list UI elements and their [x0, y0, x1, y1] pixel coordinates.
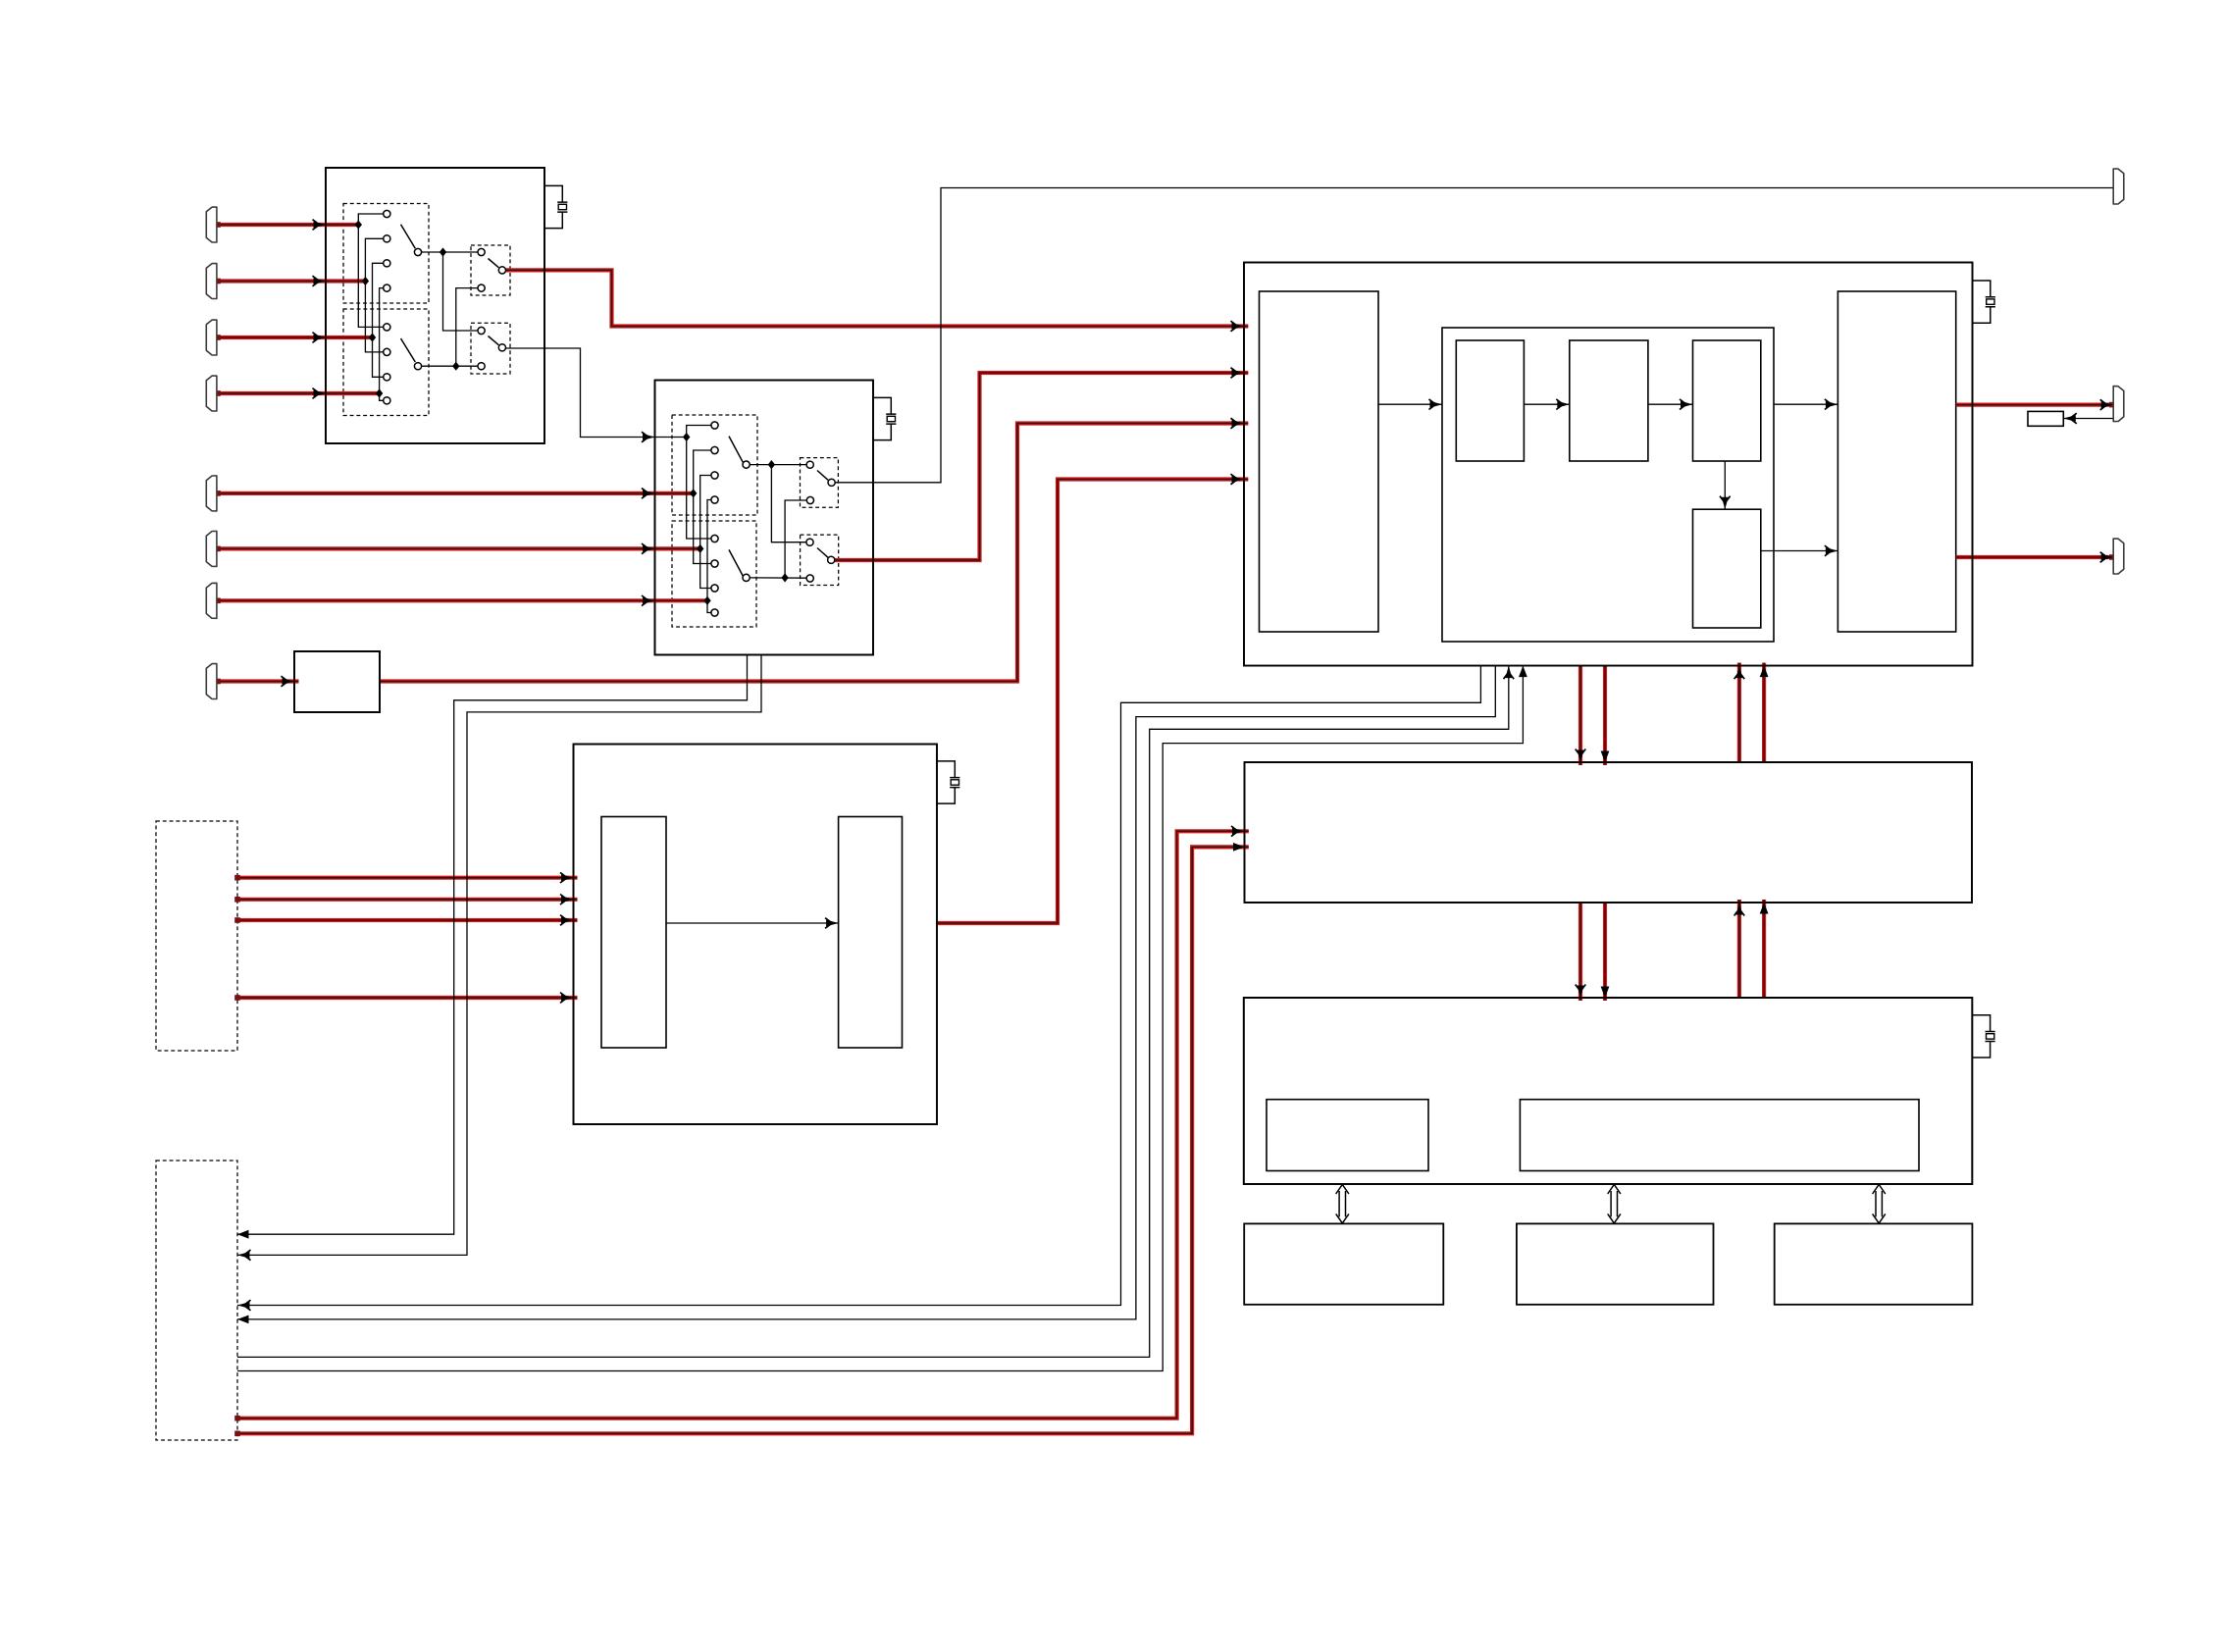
U1 switch bank S1A [343, 204, 429, 304]
node J1a [355, 220, 362, 229]
U2 switch bank S2A [672, 415, 757, 515]
filter R1 [294, 651, 380, 712]
red wire J3 to U1 [215, 335, 372, 340]
arrow U3 internal [825, 918, 839, 929]
processor unit U6 [1244, 998, 1973, 1184]
memory unit U9 [1775, 1223, 1973, 1304]
red wire U4 to U5 line 2 [1603, 666, 1607, 765]
red wire P1 to U3 line 1 [234, 875, 577, 881]
U1 S1B contact 1 [384, 324, 390, 331]
U2 S2B common [743, 574, 750, 581]
arrow into P2 line 4 [237, 1316, 249, 1324]
U3 input stage [601, 817, 666, 1049]
arrow into P2 line 1 [237, 1230, 249, 1239]
U1 S1C common [498, 267, 505, 274]
memory unit U8 [1517, 1223, 1714, 1304]
U4 wire stage3 to stage4 [1724, 461, 1726, 509]
bus link U6-U7 [1336, 1185, 1349, 1223]
red wire U5 to U4 line 2 [1762, 663, 1766, 762]
red wire J5 to U2 [215, 490, 694, 496]
U2 S2D blade [817, 548, 828, 558]
U1 bus 2 [365, 238, 383, 352]
U2 S2A contact 1 [711, 422, 718, 429]
U2 wire node C to S2D [771, 465, 806, 542]
U4 stage 4 [1693, 509, 1761, 628]
node J3a [369, 333, 376, 341]
arrow into P2 line 3 [237, 1300, 251, 1311]
crystal X3 on U3 [937, 761, 959, 803]
arrow J4 into U1 [313, 388, 327, 399]
U1 bus 1 [358, 214, 383, 327]
arrow J2 into U1 [313, 276, 327, 286]
bus link U6-U9 [1873, 1185, 1886, 1223]
arrow into U5 bottom 2 [1760, 903, 1769, 914]
arrow into U4 bottom 2 [1519, 666, 1527, 678]
U2 bus 4 [707, 500, 711, 613]
node J7a [703, 596, 710, 605]
arrow return into R2 [2063, 413, 2077, 424]
crystal X4 on U4 [1973, 281, 1995, 323]
U2 bus 1 [687, 426, 711, 540]
U1 outline [326, 168, 544, 443]
U2 S2C contact 2 [806, 496, 813, 503]
U1 output switch S1C [471, 245, 510, 295]
arrow into U5 top 1 [1576, 749, 1586, 763]
red wire U3 to U4 [937, 480, 1248, 924]
U2 outline [655, 381, 874, 655]
U1 S1D contact 2 [478, 363, 485, 370]
switch module U2 [655, 381, 874, 655]
U2 output switch S2C [801, 458, 839, 508]
red wire U5 to U6 line 2 [1603, 903, 1607, 1001]
U2 S2D contact 1 [806, 539, 813, 545]
U1 output switch S1D [471, 323, 510, 374]
arrow into P2 line 2 [237, 1250, 251, 1261]
arrow into U6 top 1 [1576, 985, 1586, 999]
arrow J7 into U2 [642, 595, 655, 606]
U4 wire input to process [1378, 403, 1442, 405]
U2 wire S2B-com to S2D [750, 577, 806, 579]
U2 switch bank S2B [672, 521, 756, 627]
U2 bus 2 [694, 450, 711, 564]
red wire J6 to U2 [215, 546, 700, 552]
U6 logic block [1520, 1100, 1919, 1171]
U2 S2A contact 2 [711, 446, 718, 453]
red wire J7 to U2 [215, 598, 707, 604]
arrow U4 input-process [1429, 399, 1443, 410]
U1 wire node A to S1D [443, 252, 479, 331]
arrow P1 into U3 pin 4 [560, 993, 574, 1004]
connector J9 [2113, 169, 2124, 204]
control unit U4 [1244, 263, 1973, 666]
arrow J3 into U1 [313, 333, 327, 343]
arrow P1 into U3 pin 3 [560, 915, 574, 926]
node J2a [362, 277, 369, 285]
arrow U1 into U2 [642, 432, 655, 442]
node D [781, 573, 788, 582]
wire U4 to P2 line 1 [237, 666, 1480, 1306]
node A [440, 247, 446, 256]
U2 S2B contact 4 [711, 609, 718, 616]
red wire P1 to U3 line 3 [234, 917, 577, 923]
U4 output block [1837, 291, 1955, 632]
U1 S1D contact 1 [478, 327, 485, 334]
connector J2 [206, 264, 217, 299]
connector J5 [206, 476, 217, 511]
wire J10 return to R2 [2063, 418, 2113, 420]
U1 S1B common [414, 363, 421, 370]
arrow P2 into U5 line 2 [1233, 843, 1245, 852]
U2 S2B contact 1 [711, 535, 718, 542]
U4 wire process to output [1774, 403, 1837, 405]
U2 wire S2A-com to S2C [750, 464, 806, 466]
U2 S2A common [743, 461, 750, 468]
U3 internal wire [666, 922, 839, 924]
U1 S1B contact 2 [384, 348, 390, 355]
arrow P2 into U5 line 1 [1231, 826, 1245, 837]
U1 S1A blade [401, 225, 416, 249]
red wire P2 to U5 line 1 [234, 831, 1249, 1420]
connector J8 [206, 664, 217, 699]
arrow J8 into R1 [282, 676, 295, 687]
connector block P1 [156, 821, 237, 1051]
node U2 in [683, 433, 690, 441]
U2 S2A contact 4 [711, 496, 718, 503]
U2 S2D common [828, 556, 835, 563]
U1 wire S1B-com to S1D [422, 365, 478, 367]
wire P2 to U4 line 3 [237, 666, 1509, 1358]
node B [452, 362, 459, 371]
U1 S1A contact 2 [384, 235, 390, 242]
connector J6 [206, 531, 217, 566]
U6 outline [1244, 998, 1973, 1184]
U2 wire node D to S2C [785, 500, 806, 578]
U1 S1C blade [489, 259, 499, 268]
U4 wire stage4 to output [1761, 550, 1838, 552]
red wire J4 to U1 [215, 390, 379, 396]
connector J1 [206, 207, 217, 242]
U4 wire stage1 to stage2 [1524, 403, 1569, 405]
arrow J5 into U2 [642, 489, 655, 499]
U1 S1A contact 3 [384, 260, 390, 267]
U1 S1D common [498, 344, 505, 351]
U2 S2C common [828, 479, 835, 486]
U2 bus 3 [700, 476, 711, 589]
switch module U1 [326, 168, 544, 443]
wire U4 to P2 line 2 [237, 666, 1495, 1319]
arrow U4 stage4-output [1825, 545, 1838, 556]
red wire U6 to U5 line 1 [1737, 900, 1741, 998]
arrow into U4 bottom 1 [1504, 666, 1515, 680]
connector J11 [2113, 539, 2124, 574]
wire U2 to P2 line 1 [237, 655, 748, 1235]
U1 wire node B to S1C [456, 288, 478, 367]
U4 outline [1244, 263, 1973, 666]
red wire R1 to U4 [380, 424, 1248, 682]
red wire J1 to U1 [215, 222, 358, 228]
R1 outline [294, 651, 380, 712]
U1 wire S1A-com to S1C [422, 251, 478, 253]
U4 input block [1260, 291, 1379, 632]
red wire J2 to U1 [215, 279, 365, 284]
red wire U5 to U6 line 1 [1578, 903, 1582, 1001]
U4 stage 1 [1456, 340, 1524, 461]
memory unit U7 [1244, 1223, 1443, 1304]
arrow into U4 bottom 3 [1734, 666, 1745, 680]
arrow into U6 top 2 [1601, 987, 1610, 999]
red wire U1 C-com to U4 [506, 270, 1249, 326]
U1 S1B blade [401, 338, 416, 362]
connector J3 [206, 320, 217, 355]
connector J10 [2113, 387, 2124, 422]
arrow U4 stage3 [1680, 399, 1693, 410]
U4 stage 3 [1693, 340, 1761, 461]
red wire J8 to R1 [215, 679, 298, 685]
red wire P1 to U3 line 4 [234, 995, 577, 1001]
arrow into U4 bottom 4 [1760, 666, 1769, 678]
U2 S2C blade [817, 471, 828, 481]
arrow J1 into U1 [313, 220, 327, 231]
U2 S2A blade [729, 437, 743, 463]
red wire P2 to U5 line 2 [234, 847, 1249, 1436]
connector J7 [206, 583, 217, 618]
U3 outline [574, 745, 938, 1125]
U1 bus 3 [373, 263, 384, 377]
arrow U4 process-output [1825, 399, 1838, 410]
arrow U4 stage2 [1556, 399, 1570, 410]
U2 S2A contact 3 [711, 472, 718, 479]
U1 S1B contact 4 [384, 397, 390, 404]
red wire U4 to J11 [1956, 554, 2115, 560]
U2 S2B contact 2 [711, 560, 718, 567]
bus link U6-U8 [1608, 1185, 1621, 1223]
arrow J6 into U2 [642, 543, 655, 554]
U4 process block [1442, 328, 1774, 642]
U1 S1C contact 2 [478, 284, 485, 291]
U4 stage 2 [1570, 340, 1648, 461]
interface unit U5 [1245, 762, 1973, 903]
node J4a [376, 388, 383, 397]
arrow U4 into J10 [2100, 399, 2114, 410]
U3 output stage [839, 817, 903, 1049]
red wire U6 to U5 line 2 [1762, 900, 1766, 998]
U6 register block [1267, 1100, 1428, 1171]
arrow into U4 pin 3 [1231, 418, 1245, 429]
U1 S1A common [414, 248, 421, 255]
node J5a [690, 489, 697, 497]
node J6a [697, 544, 703, 553]
crystal X2 on U2 [873, 397, 896, 439]
connector J4 [206, 376, 217, 411]
U1 S1A contact 4 [384, 284, 390, 291]
arrow into U4 pin 2 [1231, 368, 1245, 379]
U2 S2D contact 2 [806, 575, 813, 582]
wire U2 C-com to connector J9 [835, 188, 2113, 483]
arrow into U5 top 2 [1601, 751, 1610, 763]
tuner module U3 [574, 745, 938, 1125]
wire U2 to P2 line 2 [237, 655, 761, 1256]
arrow into U4 pin 4 [1231, 474, 1245, 485]
wire P2 to U4 line 4 [237, 666, 1523, 1371]
red wire U4 to U5 line 1 [1578, 666, 1582, 765]
U1 S1C contact 1 [478, 248, 485, 255]
crystal X1 on U1 [544, 185, 567, 228]
U1 switch bank S1B [343, 309, 429, 416]
U1 bus 4 [380, 288, 384, 401]
arrow P1 into U3 pin 1 [560, 872, 574, 883]
arrow into U5 bottom 1 [1734, 903, 1745, 916]
arrow U4 stage4 down [1720, 496, 1731, 510]
U2 S2B contact 3 [711, 585, 718, 592]
red wire U5 to U4 line 1 [1737, 663, 1741, 762]
red wire U2 D-com to U4 [835, 373, 1248, 560]
node C [768, 460, 775, 469]
arrow U4 into J11 [2100, 552, 2114, 563]
crystal X5 on U6 [1972, 1015, 1994, 1058]
U5 outline [1245, 762, 1973, 903]
arrow into U4 pin 1 [1231, 321, 1245, 332]
U1 S1B contact 3 [384, 374, 390, 381]
wire U1 D-com to U2 [506, 348, 687, 438]
red wire U4 to J10 [1956, 402, 2115, 408]
red wire P1 to U3 line 2 [234, 897, 577, 903]
U1 S1D blade [489, 336, 499, 345]
U2 S2C contact 1 [806, 461, 813, 468]
U2 S2B blade [729, 549, 743, 576]
U1 S1A contact 1 [384, 210, 390, 217]
arrow P1 into U3 pin 2 [560, 895, 574, 905]
U2 output switch S2D [801, 535, 839, 585]
resistor R2 [2028, 411, 2063, 426]
connector block P2 [156, 1161, 237, 1440]
U4 wire stage2 to stage3 [1648, 403, 1693, 405]
